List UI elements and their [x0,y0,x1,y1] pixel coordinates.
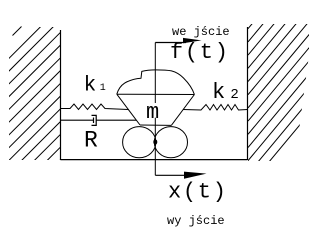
svg-text:k: k [84,74,97,97]
svg-text:m: m [146,100,159,125]
svg-text:k: k [212,80,225,105]
svg-text:f(t): f(t) [170,40,230,65]
svg-text:we jście: we jście [172,25,230,39]
svg-text:1: 1 [100,83,106,94]
svg-text:x(t): x(t) [168,180,228,205]
svg-text:2: 2 [230,87,238,103]
svg-text:wy jście: wy jście [167,214,225,228]
svg-text:R: R [84,127,98,153]
